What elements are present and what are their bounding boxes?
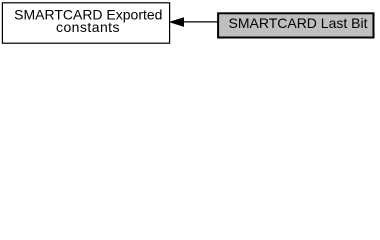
background [0, 0, 380, 51]
edge wire: SMARTCARD Last Bit -> SMARTCARD Exported constants [170, 18, 217, 26]
node: SMARTCARD Exported constants (white box) [2, 3, 169, 43]
svg-text:constants: constants [56, 19, 120, 35]
svg-text:SMARTCARD Last Bit: SMARTCARD Last Bit [229, 15, 368, 31]
arrowhead [170, 18, 183, 26]
node: SMARTCARD Last Bit (current node, grey box) [218, 13, 373, 37]
